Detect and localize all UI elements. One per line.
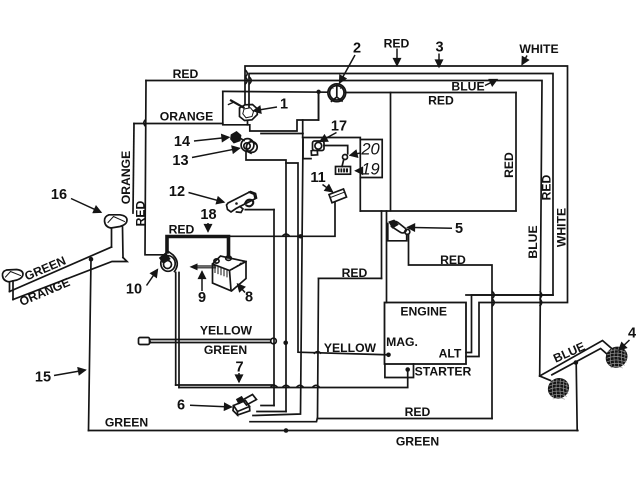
- key switch 13 14: [231, 132, 257, 153]
- wire red: from fuse 5 down and right to right-side riser: [409, 234, 493, 418]
- wire red: ammeter feed / red box top: [223, 90, 328, 93]
- leader arrow for 16: [71, 199, 101, 213]
- engine box: [385, 303, 467, 365]
- wire from terminal 20 to fuse 19: [342, 159, 344, 166]
- leader arrow for 10: [147, 270, 158, 286]
- svg-text:9: 9: [198, 290, 206, 306]
- toggle switch 1: [229, 101, 258, 125]
- leader arrow for 1: [254, 107, 278, 111]
- diode plate 11: [329, 189, 347, 203]
- leader arrow for 14: [194, 137, 229, 141]
- svg-text:STARTER: STARTER: [415, 365, 472, 379]
- svg-text:GREEN: GREEN: [204, 343, 247, 357]
- wire: clip 12 lead: [245, 209, 274, 211]
- svg-text:YELLOW: YELLOW: [324, 341, 377, 355]
- svg-text:RED: RED: [428, 94, 454, 108]
- node junction dot on green diagonal: [89, 257, 94, 262]
- wire: key switch jog to vertical c: [286, 163, 387, 355]
- leader arrow for 9: [201, 272, 203, 292]
- svg-text:RED: RED: [502, 152, 516, 178]
- switch 1 mounting box: [223, 91, 319, 131]
- arrow 9 horizontal wire pointer: [190, 263, 216, 270]
- svg-text:WHITE: WHITE: [519, 42, 558, 56]
- wire blue: headlamp diagonal upper line: [540, 341, 614, 377]
- leader arrow for RED top: [396, 49, 398, 66]
- leader arrow for 5: [408, 226, 453, 229]
- leader arrow for 4: [619, 340, 630, 350]
- starter solenoid 10: [160, 251, 177, 272]
- leader arrow for 7: [238, 373, 240, 382]
- wire 7 outer run to starter terminal: [179, 370, 408, 388]
- svg-text:1: 1: [280, 97, 288, 113]
- wire white: top outer run from switch 1 to ALT terminal: [245, 66, 568, 357]
- wire red box: top right segment: [345, 92, 516, 94]
- wire: vertical a from clip 12 wire down to interlock stair: [273, 210, 275, 406]
- wire: vertical from red box bottom to engine box top: [386, 211, 388, 303]
- leader arrow for 2: [340, 55, 356, 83]
- interlock switch 6: [233, 395, 257, 416]
- wire hop bumps: [245, 70, 251, 84]
- wire: vertical from ammeter dot: [318, 92, 320, 120]
- svg-text:RED: RED: [173, 67, 199, 81]
- svg-text:11: 11: [310, 170, 325, 186]
- node starter terminal dot: [405, 367, 410, 372]
- leader arrow for 15: [54, 370, 86, 376]
- wire pair from solenoid 10 down: [176, 273, 179, 388]
- wire green: lamp ground riser: [576, 363, 577, 431]
- svg-text:MAG.: MAG.: [386, 335, 418, 349]
- wire blue: third top run to headlamps: [146, 81, 542, 377]
- leader arrow for 3: [438, 54, 440, 68]
- wire: thin lead from battery cable to diode 11: [229, 202, 336, 236]
- leader arrow for 11: [323, 185, 333, 192]
- leader arrow for 6: [190, 405, 232, 407]
- svg-text:20: 20: [360, 141, 380, 159]
- wire orange: vertical drop to connector 16: [133, 124, 134, 214]
- svg-text:13: 13: [172, 153, 188, 169]
- svg-text:14: 14: [174, 134, 190, 150]
- wire red: horizontal labeled red above engine: [319, 277, 382, 279]
- svg-text:GREEN: GREEN: [396, 435, 439, 449]
- headlamp 4 upper: [603, 344, 631, 371]
- wire green: long left vertical item 15: [89, 259, 92, 430]
- wire: key switch feed jog: [261, 133, 303, 135]
- leader arrow for BLUE: [485, 80, 497, 86]
- connector 15 lower plug: [2, 270, 23, 300]
- node junction dot yellow wire at vertical b: [283, 341, 288, 346]
- svg-text:12: 12: [169, 184, 185, 200]
- fuse link 5: [388, 221, 410, 241]
- wire red vertical ALT riser: [466, 295, 553, 353]
- relay 17 holder box: [303, 138, 361, 212]
- svg-text:ENGINE: ENGINE: [400, 305, 447, 319]
- svg-text:RED: RED: [540, 174, 554, 200]
- svg-text:RED: RED: [384, 37, 410, 51]
- ammeter 2: [328, 84, 346, 102]
- leader arrow for 8: [238, 284, 246, 293]
- svg-text:17: 17: [331, 119, 347, 135]
- wire red: left vertical drop to starter solenoid 10: [145, 81, 163, 255]
- svg-text:GREEN: GREEN: [105, 416, 148, 430]
- svg-text:BLUE: BLUE: [526, 225, 540, 258]
- wire green diagonal from connector 15 to connector 16: [10, 247, 112, 292]
- wire orange diagonal from connector 15: [13, 258, 127, 300]
- svg-text:YELLOW: YELLOW: [200, 324, 253, 338]
- svg-text:ORANGE: ORANGE: [160, 110, 214, 124]
- node junction dot on battery wire at vertical c: [298, 234, 302, 238]
- fuse 19: [336, 167, 351, 175]
- wire green: bottom run: [89, 430, 578, 432]
- svg-text:5: 5: [455, 221, 463, 237]
- connector 16: [104, 215, 127, 258]
- svg-text:BLUE: BLUE: [451, 80, 484, 94]
- wire: key switch lower feed to vertical b: [246, 152, 286, 412]
- svg-text:10: 10: [126, 282, 142, 298]
- wire red box: left edge: [390, 93, 392, 211]
- svg-text:WHITE: WHITE: [555, 208, 569, 247]
- headlamp 4 lower: [545, 375, 572, 402]
- svg-text:RED: RED: [440, 253, 466, 267]
- node magneto terminal dot: [386, 353, 391, 358]
- wire blue: corner stub to lower lamp: [540, 376, 551, 381]
- wire yellow green pair from spade plug: [150, 340, 270, 343]
- fuse holder inner box around items 19 20: [360, 140, 382, 178]
- starter box extension: [385, 364, 414, 378]
- svg-text:ALT: ALT: [439, 347, 462, 361]
- wire orange: horizontal run to switch box: [134, 123, 223, 125]
- svg-text:ORANGE: ORANGE: [119, 151, 133, 205]
- svg-text:2: 2: [353, 41, 361, 57]
- wire red: from red box bottom down to red label wire: [381, 211, 383, 278]
- terminal circle 20: [343, 155, 348, 160]
- relay 17 holder box left edge: [302, 120, 304, 138]
- wire red: thick battery cable from solenoid 10 to battery positive: [167, 237, 229, 258]
- node junction dot on ammeter wire: [316, 90, 320, 94]
- svg-text:6: 6: [177, 398, 185, 414]
- battery 8: [213, 256, 247, 291]
- wire blue: headlamp diagonal lower line: [552, 349, 612, 375]
- svg-text:15: 15: [35, 370, 51, 386]
- svg-text:3: 3: [435, 40, 443, 56]
- connector circle 20 style on yellow wire: [271, 338, 277, 344]
- spade plug left of yellow wire: [139, 338, 151, 345]
- svg-text:16: 16: [51, 187, 67, 203]
- svg-text:4: 4: [628, 326, 636, 342]
- wire 7 inner run: [176, 384, 274, 386]
- wire: stair step h1 to interlock 6: [261, 405, 274, 407]
- leader arrow for WHITE: [522, 56, 527, 65]
- svg-text:RED: RED: [134, 200, 148, 226]
- node junction dot on green bottom wire: [284, 428, 289, 433]
- wire red: bottom run: [318, 418, 493, 420]
- leader arrow for 13: [192, 148, 240, 157]
- wire red: second top run from switch 1 to ALT terminal: [249, 74, 553, 296]
- leader arrow for 12: [189, 193, 225, 203]
- wire: vertical e down to stair: [250, 278, 319, 421]
- leader arrow for 18: [207, 223, 209, 232]
- wire red box: right edge: [515, 93, 517, 211]
- relay 17: [303, 140, 348, 159]
- clip 12: [227, 192, 257, 213]
- svg-text:8: 8: [245, 290, 253, 306]
- node junction dot on lamp wire: [574, 360, 579, 365]
- svg-text:18: 18: [200, 207, 216, 223]
- leader arrow for 20: [350, 153, 361, 156]
- wire: stair step h2 to interlock 6: [257, 411, 286, 413]
- svg-text:RED: RED: [342, 266, 368, 280]
- svg-text:19: 19: [361, 161, 379, 179]
- svg-text:RED: RED: [169, 223, 195, 237]
- wire red box: bottom edge: [360, 210, 516, 212]
- leader arrow for 19: [356, 170, 362, 172]
- svg-text:RED: RED: [405, 405, 431, 419]
- leader arrow for 17: [320, 133, 337, 142]
- wire: vertical from fuse box down to interlock stair: [253, 138, 303, 416]
